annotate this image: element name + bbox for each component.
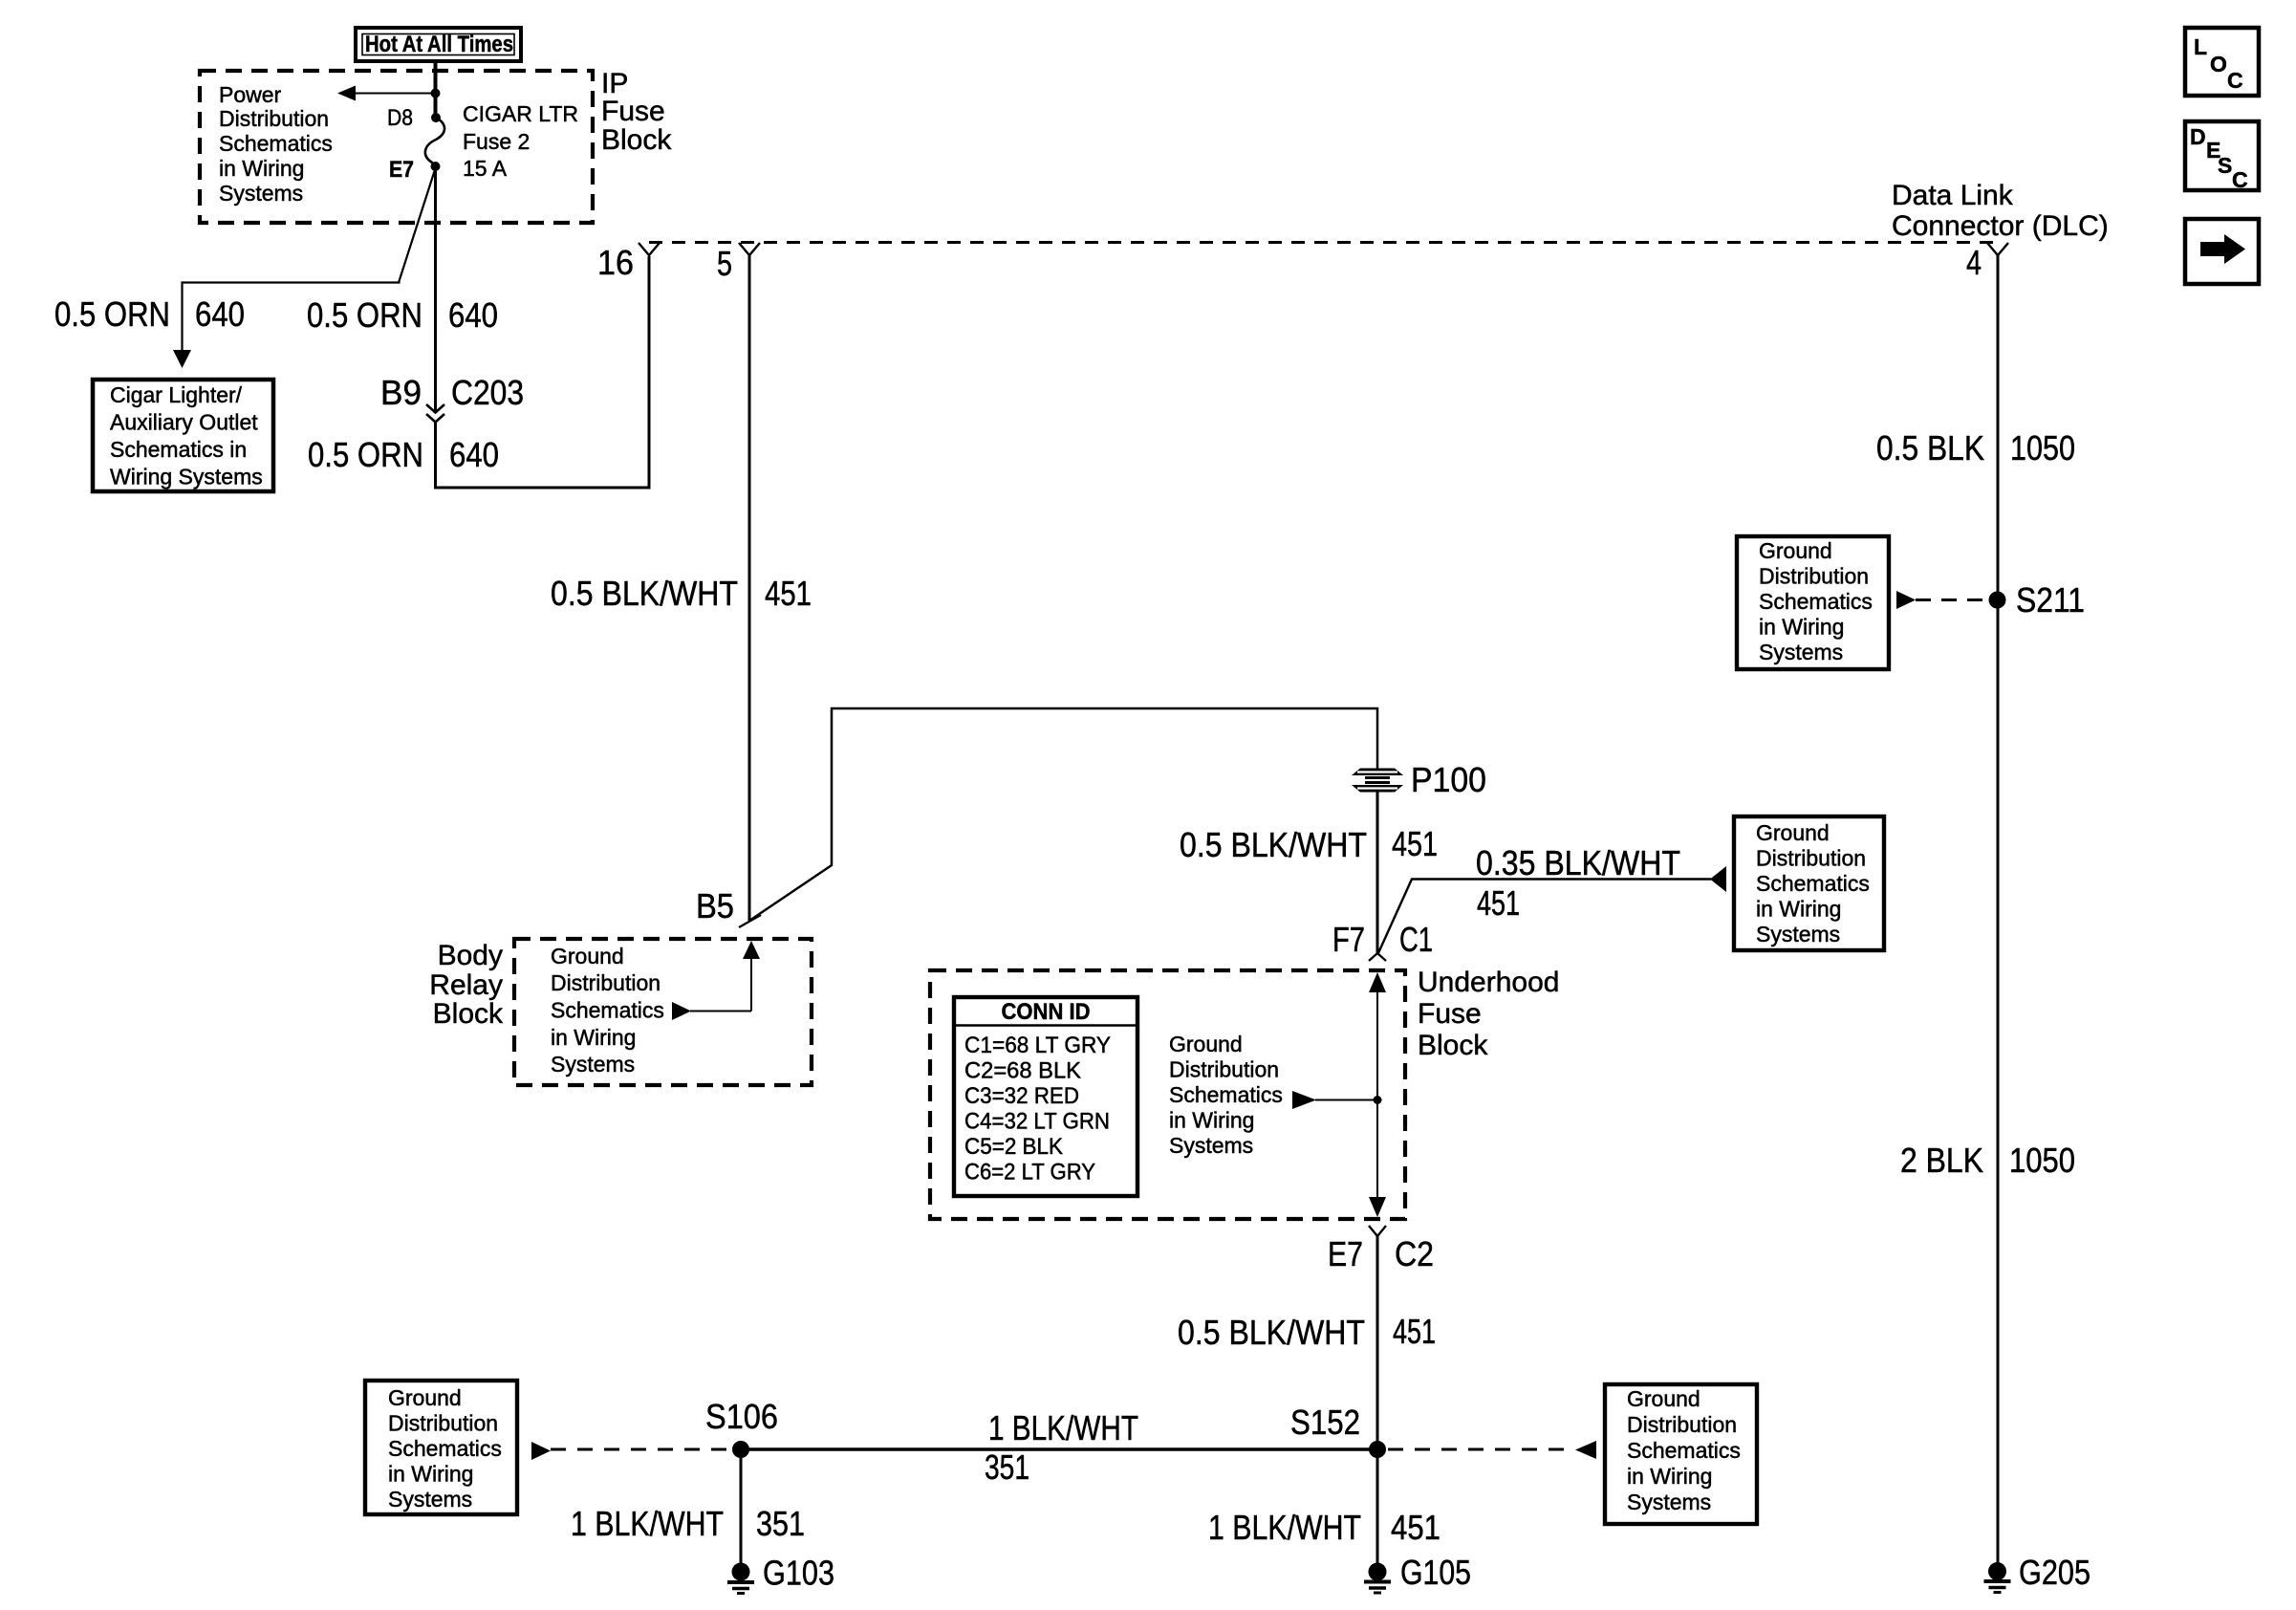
box Cigar Lighter/Auxiliary Outlet Schematics in Wiring Systems	[93, 380, 273, 491]
svg-text:in Wiring: in Wiring	[1169, 1108, 1254, 1133]
svg-text:Wiring Systems: Wiring Systems	[110, 465, 263, 490]
svg-text:G103: G103	[763, 1554, 834, 1593]
svg-text:G105: G105	[1400, 1553, 1471, 1592]
wire pin 5 vertical run	[748, 255, 751, 921]
wire arrow inside body relay box pointing to B5	[672, 941, 760, 1020]
svg-text:Fuse: Fuse	[1418, 998, 1482, 1030]
wire arrow and dashed link to S106	[531, 1442, 730, 1460]
svg-text:Schematics: Schematics	[1759, 589, 1873, 614]
svg-text:1050: 1050	[2009, 1141, 2075, 1180]
fuse value label CIGAR LTR Fuse 2 15 A	[463, 101, 578, 181]
splice S211 dot	[1989, 592, 2006, 609]
wire label 0.5 BLK/WHT 451 (above C1)	[1180, 824, 1438, 864]
svg-text:Systems: Systems	[1756, 922, 1840, 946]
svg-text:S211: S211	[2016, 580, 2085, 620]
box Ground Distribution Schematics (0.35 wire)	[1734, 816, 1884, 950]
icon box right arrow	[2185, 219, 2259, 284]
svg-text:0.5 BLK/WHT: 0.5 BLK/WHT	[1180, 825, 1367, 864]
svg-text:Auxiliary Outlet: Auxiliary Outlet	[110, 410, 258, 435]
wire label 0.5 BLK/WHT 451 (pin 5)	[551, 574, 812, 613]
label Body Relay Block	[429, 940, 504, 1030]
label Data Link Connector (DLC)	[1892, 180, 2109, 242]
svg-text:P100: P100	[1411, 760, 1486, 799]
label box Hot At All Times	[356, 28, 521, 61]
svg-text:Relay: Relay	[429, 969, 503, 1001]
icon box LOC	[2185, 28, 2259, 96]
wire main vertical below fuse E7	[434, 166, 437, 412]
box Ground Distribution Schematics (S152)	[1605, 1384, 1757, 1524]
wire from C203 down and right to pin 16 riser	[436, 256, 650, 488]
svg-text:1 BLK/WHT: 1 BLK/WHT	[571, 1504, 724, 1543]
wire label 0.35 BLK/WHT 451	[1476, 843, 1680, 923]
svg-text:451: 451	[1392, 824, 1438, 863]
svg-text:Systems: Systems	[551, 1052, 635, 1077]
svg-text:Underhood: Underhood	[1418, 967, 1559, 998]
wire label 0.5 BLK/WHT 451 (above S152)	[1178, 1312, 1436, 1352]
junction dot inside underhood box	[1374, 1096, 1382, 1104]
splice P100 grommet symbol	[1352, 769, 1403, 793]
svg-text:640: 640	[449, 435, 499, 474]
svg-text:in Wiring: in Wiring	[388, 1462, 473, 1487]
svg-text:B5: B5	[696, 886, 734, 925]
svg-text:in Wiring: in Wiring	[1756, 897, 1841, 922]
ground G103 symbol	[727, 1563, 754, 1594]
svg-text:S152: S152	[1290, 1403, 1360, 1442]
svg-text:D8: D8	[387, 105, 413, 131]
svg-text:Block: Block	[601, 124, 672, 156]
wire arrow and dashed link to S211	[1896, 591, 1988, 609]
svg-text:1 BLK/WHT: 1 BLK/WHT	[1208, 1508, 1361, 1547]
connector E7 C2 labels	[1328, 1234, 1434, 1273]
pin D8 dot	[431, 113, 441, 122]
wire diagonal branch 0.35 BLK/WHT to ground distribution	[1377, 880, 1711, 956]
svg-text:1050: 1050	[2010, 428, 2075, 468]
svg-text:Distribution: Distribution	[388, 1411, 498, 1436]
CONN ID table	[954, 997, 1137, 1196]
svg-text:Connector (DLC): Connector (DLC)	[1892, 210, 2109, 242]
svg-text:0.5 ORN: 0.5 ORN	[54, 294, 170, 334]
pin E7 dot	[431, 162, 441, 171]
box Ground Distribution Schematics (S106)	[365, 1381, 517, 1514]
svg-text:C6=2 LT GRY: C6=2 LT GRY	[964, 1160, 1095, 1186]
terminal B5 slash	[739, 915, 761, 927]
wire DLC dashed bus line	[649, 241, 1998, 244]
svg-text:Block: Block	[433, 998, 504, 1030]
wire label 0.5 BLK 1050	[1876, 428, 2075, 468]
connector F7 C1 labels	[1332, 920, 1433, 959]
svg-text:351: 351	[756, 1504, 805, 1543]
fuse CIGAR LTR Fuse 2 15A symbol	[425, 118, 444, 166]
svg-text:1 BLK/WHT: 1 BLK/WHT	[988, 1408, 1138, 1447]
svg-text:451: 451	[1393, 1312, 1436, 1351]
wire arrowhead into ground distribution box	[1710, 866, 1726, 892]
svg-text:Distribution: Distribution	[1169, 1057, 1279, 1082]
wire dashed link S152 to ground distribution box	[1388, 1448, 1574, 1451]
junction dot at arrow branch	[431, 89, 441, 98]
svg-text:C4=32 LT GRN: C4=32 LT GRN	[964, 1109, 1110, 1135]
svg-text:0.5 ORN: 0.5 ORN	[307, 295, 422, 335]
svg-text:Distribution: Distribution	[1756, 846, 1866, 871]
wire from Hot At All Times box down	[434, 61, 438, 118]
svg-text:Systems: Systems	[1169, 1133, 1253, 1158]
svg-text:S: S	[2218, 153, 2232, 178]
svg-text:Schematics: Schematics	[1627, 1438, 1741, 1463]
wire label 0.5 ORN 640 (left)	[54, 294, 245, 334]
svg-text:0.5 ORN: 0.5 ORN	[308, 435, 423, 474]
Underhood Fuse Block dashed box	[930, 970, 1405, 1219]
svg-text:in Wiring: in Wiring	[1759, 615, 1844, 640]
svg-text:in Wiring: in Wiring	[1627, 1464, 1712, 1489]
ground G205 symbol	[1984, 1562, 2011, 1593]
connector B9 C203 labels	[380, 373, 524, 412]
note Ground Distribution Schematics in Wiring Systems (body relay)	[551, 944, 664, 1077]
svg-text:5: 5	[717, 244, 732, 283]
svg-text:0.5 BLK/WHT: 0.5 BLK/WHT	[551, 574, 738, 613]
svg-text:Schematics: Schematics	[1756, 871, 1870, 896]
svg-text:G205: G205	[2019, 1553, 2090, 1592]
svg-text:351: 351	[985, 1447, 1029, 1487]
wire label 0.5 ORN 640 (below C203)	[308, 435, 499, 474]
svg-text:C3=32 RED: C3=32 RED	[964, 1083, 1079, 1109]
svg-text:Fuse: Fuse	[601, 96, 665, 127]
ground G105 symbol	[1364, 1563, 1391, 1594]
svg-text:Systems: Systems	[1759, 640, 1843, 664]
svg-text:Schematics in: Schematics in	[110, 437, 247, 462]
Body Relay Block dashed box	[514, 939, 812, 1085]
note Ground Distribution Schematics in Wiring Systems (underhood)	[1169, 1032, 1283, 1158]
wire diagonal branch from E7 to left run	[183, 168, 436, 350]
wire label 0.5 ORN 640 (middle)	[307, 295, 498, 335]
svg-text:Schematics: Schematics	[219, 131, 333, 156]
svg-text:Ground: Ground	[1627, 1386, 1700, 1411]
wire through underhood fuse block with arrowheads	[1369, 972, 1386, 1217]
svg-text:0.5 BLK: 0.5 BLK	[1876, 428, 1984, 468]
connector C2 chevron below box	[1369, 1226, 1386, 1236]
svg-text:451: 451	[1477, 883, 1520, 923]
svg-text:Ground: Ground	[1759, 538, 1832, 563]
label Underhood Fuse Block	[1418, 967, 1559, 1061]
svg-text:Distribution: Distribution	[219, 106, 329, 131]
wire label 1 BLK/WHT 351 (middle)	[985, 1408, 1138, 1487]
svg-text:O: O	[2210, 52, 2227, 76]
svg-text:Distribution: Distribution	[1627, 1412, 1737, 1437]
wire S106 down to G103	[740, 1449, 743, 1564]
svg-text:640: 640	[448, 295, 498, 335]
wire label 1 BLK/WHT 451 (G105)	[1208, 1508, 1440, 1547]
svg-text:Schematics: Schematics	[1169, 1082, 1283, 1107]
svg-text:E7: E7	[389, 157, 414, 183]
svg-text:Systems: Systems	[219, 181, 303, 206]
splice S152 dot	[1369, 1441, 1386, 1458]
label IP Fuse Block	[601, 68, 672, 156]
wire S106 to S152	[741, 1447, 1377, 1451]
svg-text:C203: C203	[451, 373, 524, 412]
note Power Distribution Schematics in Wiring Systems	[219, 82, 333, 206]
svg-text:Hot At All Times: Hot At All Times	[365, 32, 513, 57]
svg-text:C2=68 BLK: C2=68 BLK	[964, 1058, 1081, 1084]
pin 4 chevron	[1987, 243, 2008, 255]
wire arrowhead at S152 box	[1575, 1441, 1596, 1459]
svg-text:Systems: Systems	[1627, 1490, 1711, 1514]
svg-text:Ground: Ground	[1756, 820, 1830, 845]
connector C203 double chevron	[426, 404, 444, 423]
svg-text:Distribution: Distribution	[1759, 564, 1869, 589]
svg-text:C2: C2	[1395, 1234, 1434, 1273]
wire P100 down to C1	[1376, 792, 1379, 953]
wire label 1 BLK/WHT 351 (G103)	[571, 1504, 805, 1543]
icon box DESC	[2185, 121, 2259, 192]
svg-text:0.5 BLK/WHT: 0.5 BLK/WHT	[1178, 1313, 1365, 1352]
svg-text:CONN ID: CONN ID	[1002, 999, 1091, 1025]
svg-text:Block: Block	[1418, 1030, 1488, 1061]
svg-text:Systems: Systems	[388, 1487, 472, 1512]
svg-text:E7: E7	[1328, 1234, 1363, 1273]
IP fuse block dashed box	[200, 71, 593, 223]
svg-text:B9: B9	[380, 373, 422, 412]
svg-text:C1=68 LT GRY: C1=68 LT GRY	[964, 1033, 1111, 1058]
svg-text:0.35 BLK/WHT: 0.35 BLK/WHT	[1476, 843, 1680, 882]
wire arrow to Power Distribution	[337, 86, 436, 101]
wire label 2 BLK 1050	[1900, 1141, 2075, 1180]
svg-text:640: 640	[195, 294, 245, 334]
svg-text:16: 16	[597, 243, 634, 282]
svg-text:Ground: Ground	[388, 1385, 462, 1410]
wire from B5 up over to P100	[749, 708, 1377, 921]
svg-text:in Wiring: in Wiring	[219, 156, 304, 181]
splice S106 dot	[732, 1441, 749, 1458]
svg-text:CIGAR LTR: CIGAR LTR	[463, 101, 578, 126]
svg-text:Fuse 2: Fuse 2	[463, 129, 530, 154]
wire C2 down to S152	[1376, 1236, 1379, 1564]
wire arrowhead down to Cigar Lighter box	[173, 350, 191, 368]
svg-text:C5=2 BLK: C5=2 BLK	[964, 1134, 1063, 1160]
svg-text:Power: Power	[219, 82, 282, 107]
svg-text:Ground: Ground	[551, 944, 624, 968]
svg-text:Ground: Ground	[1169, 1032, 1243, 1056]
svg-text:15 A: 15 A	[463, 156, 508, 181]
svg-text:2 BLK: 2 BLK	[1900, 1141, 1983, 1180]
pin 5 chevron	[739, 243, 760, 255]
svg-text:Body: Body	[438, 940, 503, 971]
svg-text:Schematics: Schematics	[388, 1436, 502, 1461]
box Ground Distribution Schematics (S211)	[1737, 536, 1889, 669]
svg-text:451: 451	[1391, 1508, 1440, 1547]
svg-text:Distribution: Distribution	[551, 970, 661, 995]
svg-text:S106: S106	[705, 1397, 778, 1436]
wire arrow from note to junction	[1292, 1091, 1377, 1109]
svg-text:451: 451	[765, 574, 812, 613]
svg-text:Schematics: Schematics	[551, 998, 664, 1023]
pin 16 chevron	[639, 243, 660, 255]
svg-text:F7: F7	[1332, 920, 1365, 959]
svg-text:in Wiring: in Wiring	[551, 1025, 636, 1050]
connector C1 flare	[1369, 953, 1386, 961]
svg-text:Cigar Lighter/: Cigar Lighter/	[110, 382, 243, 407]
svg-text:4: 4	[1966, 243, 1982, 282]
svg-text:C: C	[2227, 68, 2243, 93]
svg-text:D: D	[2190, 124, 2206, 149]
svg-text:L: L	[2194, 34, 2207, 59]
svg-text:C: C	[2232, 167, 2248, 192]
svg-text:C1: C1	[1399, 920, 1433, 959]
wire DLC pin 4 down to G205	[1997, 255, 2000, 1563]
svg-text:Data Link: Data Link	[1892, 180, 2014, 211]
